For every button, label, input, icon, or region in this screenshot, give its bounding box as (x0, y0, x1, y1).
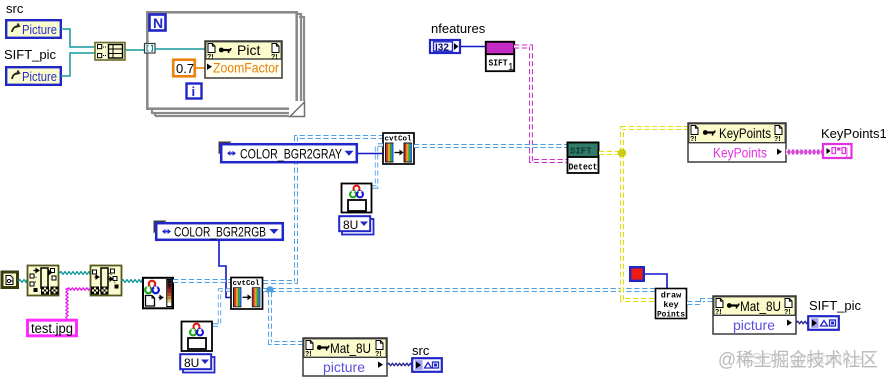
svg-text:src: src (412, 343, 430, 358)
wire type node2 to cvtColor(RGB) (213, 290, 231, 325)
type node (8U, for RGB) (182, 322, 213, 352)
indicator KeyPoints1 (823, 144, 852, 158)
wire build array to loop tunnel (125, 49, 144, 51)
junction Mat RGB (266, 286, 274, 294)
svg-text:8U: 8U (343, 218, 358, 232)
property node Mat_8U (SIFT_pic) (713, 296, 796, 334)
node cvtColor (BGR2GRAY) (383, 133, 414, 164)
wire cvtColor(RGB) out to draw keypoints (long chain) (263, 288, 655, 292)
svg-text:KeyPoints: KeyPoints (713, 145, 767, 161)
wire SIFT_pic Picture to build array (61, 53, 95, 76)
svg-text:Mat_8U: Mat_8U (330, 340, 371, 356)
indicator src (picture) (412, 358, 442, 372)
indicator SIFT_pic (picture) (808, 316, 839, 330)
wire cvtColor(RGB) src-out up to cvtColor(GRAY) (Mat ref chain) (263, 137, 383, 282)
for loop frame (stacked) (147, 12, 306, 118)
enum constant 8U (top) (339, 216, 373, 234)
svg-text:SIFT_pic: SIFT_pic (4, 47, 57, 62)
loop iteration terminal i (187, 84, 202, 100)
loop tunnel [] (145, 44, 156, 54)
wire build path to imread (121, 280, 142, 283)
wire cvtColor(GRAY) to SIFT Detect (Mat ref chain) (414, 144, 567, 148)
boolean constant (red square) (630, 267, 644, 281)
svg-text:cvtCol: cvtCol (233, 280, 261, 288)
svg-text:I32: I32 (435, 43, 449, 54)
property node Mat_8U (src) (303, 338, 387, 376)
wire KeyPoints array to indicator (hatched) (786, 150, 822, 155)
node SIFT Detect (568, 143, 599, 174)
wire keypoints up to KeyPoints property node (622, 128, 688, 153)
wire type node to cvtColor(GRAY) (372, 145, 383, 187)
wire keypoints down to draw keypoints (622, 153, 655, 300)
svg-text:src: src (6, 1, 24, 16)
enum constant COLOR_BGR2GRAY (219, 142, 357, 163)
node strip path (28, 266, 59, 296)
wire COLOR_BGR2GRAY to cvtColor(GRAY) (358, 153, 383, 155)
svg-text:Detect: Detect (569, 163, 598, 173)
svg-text:?!: ?! (690, 136, 697, 143)
svg-text:8U: 8U (184, 356, 199, 370)
control src Picture (6, 20, 61, 38)
wire src Picture to build array (61, 29, 95, 47)
svg-text:1: 1 (508, 62, 514, 73)
svg-text:COLOR_BGR2RGB: COLOR_BGR2RGB (174, 225, 266, 240)
svg-text:i: i (192, 84, 196, 99)
svg-text:?!: ?! (784, 309, 791, 316)
node build path (91, 266, 122, 296)
svg-text:]: ] (846, 147, 849, 157)
svg-text:?!: ?! (305, 351, 312, 358)
svg-text:0.7: 0.7 (176, 61, 194, 76)
wire test.jpg to build path (string) (66, 289, 68, 319)
wire junction down to Mat_8U picture (src) (270, 292, 303, 343)
svg-text:SIFT: SIFT (489, 59, 509, 69)
svg-text:COLOR_BGR2GRAY: COLOR_BGR2GRAY (240, 147, 342, 162)
svg-text:test.jpg: test.jpg (31, 321, 73, 336)
svg-text:Mat_8U: Mat_8U (740, 298, 781, 314)
property node KeyPoints (688, 123, 786, 162)
wire VI path to strip path (18, 280, 27, 283)
svg-text:draw: draw (661, 291, 682, 301)
svg-text:Points: Points (657, 310, 685, 320)
svg-text:CSDN @robotlce: CSDN @robotlce (740, 351, 863, 368)
svg-text:?!: ?! (774, 136, 781, 143)
control SIFT_pic Picture (6, 67, 61, 85)
wire COLOR_BGR2RGB to cvtColor(RGB) (219, 241, 231, 298)
type node (8U, for GRAY) (342, 184, 372, 213)
svg-text:KeyPoints1: KeyPoints1 (821, 126, 886, 141)
node cvtColor (BGR2RGB) (231, 278, 263, 310)
svg-text:picture: picture (323, 359, 365, 375)
svg-text:cvtCol: cvtCol (385, 136, 413, 144)
wire SIFT Detect out (keypoints, yellow chain) (599, 151, 620, 155)
wire tunnel to Pict property node (155, 48, 206, 50)
wire I32 to SIFT1 (461, 46, 485, 48)
enum constant 8U (bottom) (180, 354, 214, 372)
junction keypoints (618, 149, 626, 157)
svg-text:Pict: Pict (237, 42, 260, 58)
enum constant COLOR_BGR2RGB (154, 221, 283, 240)
wire boolean to draw keypoints (645, 274, 667, 288)
svg-text:Picture: Picture (22, 22, 57, 37)
svg-text:nfeatures: nfeatures (431, 21, 486, 36)
wire strip path to build path (59, 272, 90, 275)
svg-text:N: N (153, 15, 163, 31)
constant test.jpg (string) (28, 320, 77, 336)
wire picture to SIFT_pic indicator (796, 321, 808, 324)
svg-text:picture: picture (733, 317, 775, 333)
constant 0.7 (173, 60, 195, 77)
wire imread to cvtColor(RGB) (173, 279, 231, 283)
svg-text:key: key (663, 300, 678, 310)
node draw keypoints (656, 289, 687, 320)
node imread (143, 278, 173, 309)
svg-text:SIFT: SIFT (570, 147, 592, 157)
wire picture to src indicator (387, 363, 412, 366)
svg-text:Picture: Picture (22, 69, 57, 84)
svg-text:ZoomFactor: ZoomFactor (213, 61, 279, 76)
node SIFT1 constructor (486, 42, 514, 73)
wire 0.7 to ZoomFactor (196, 67, 207, 69)
wire SIFT1 to SIFT Detect (object ref, magenta chain) (514, 47, 567, 162)
svg-text:SIFT_pic: SIFT_pic (809, 298, 862, 313)
loop count terminal N (150, 15, 166, 32)
svg-text:?!: ?! (375, 351, 382, 358)
control nfeatures I32 (430, 40, 460, 54)
constant Current VI path (2, 272, 18, 288)
property node Pict (ZoomFactor) (205, 41, 282, 78)
node build array (95, 43, 125, 61)
svg-text:KeyPoints: KeyPoints (719, 125, 771, 141)
svg-text:?!: ?! (715, 309, 722, 316)
wire draw keypoints to Mat_8U (SIFT_pic) (687, 300, 713, 303)
